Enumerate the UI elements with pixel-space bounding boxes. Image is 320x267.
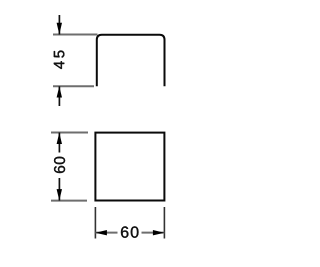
channel profile outline (top view): [97, 35, 165, 86]
dimension 60 vertical: dimension line with arrows: [57, 133, 62, 201]
dimension 45: value label "45" (rotated): [54, 51, 64, 69]
dimension 60 vertical: bottom extension line: [51, 200, 87, 202]
square outline (bottom view): [95, 133, 164, 201]
dimension 60 vertical: value label "60" (rotated): [54, 157, 65, 173]
dimension 45: top extension line: [53, 34, 98, 36]
dimension 60 horizontal: dimension line with arrows: [95, 230, 164, 235]
dimension 60 horizontal: right extension line: [163, 207, 165, 239]
dimension 60 vertical: top extension line: [51, 132, 88, 134]
dimension 60 horizontal: left extension line: [94, 207, 96, 239]
dimension 60 horizontal: value label "60": [121, 226, 138, 237]
dimension 45: bottom extension line: [53, 85, 94, 87]
dimension 45: lower dimension line stub with up arrow: [57, 86, 62, 106]
dimension 45: upper dimension line stub with down arrow: [57, 15, 62, 35]
